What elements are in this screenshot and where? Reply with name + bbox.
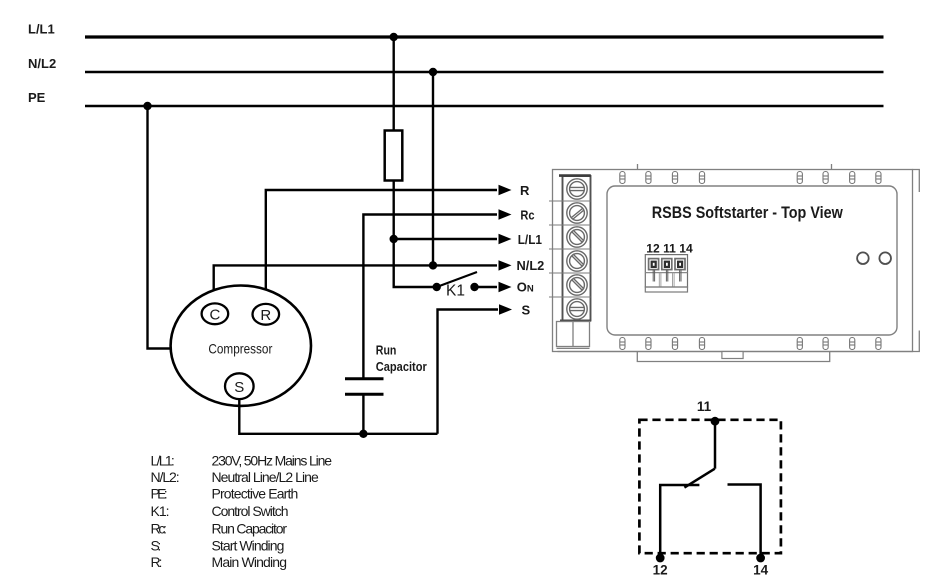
node N/L2 tap junction [429, 68, 437, 76]
wire mains line L/L1 [85, 35, 884, 38]
node terminal 14 [756, 554, 765, 563]
compressor terminal C [202, 303, 229, 324]
wire protective earth line PE [85, 105, 884, 107]
wire L/L1 feed down to fuse [393, 37, 395, 131]
svg-text:11: 11 [697, 399, 712, 414]
svg-text:L/L1:: L/L1: [151, 453, 175, 469]
wire Rc row (to run capacitor) [363, 215, 497, 379]
arrow N/L2 [499, 260, 512, 270]
svg-text:Run: Run [376, 343, 397, 358]
wire R row (main winding to terminal R) [266, 190, 497, 304]
svg-text:14: 14 [753, 563, 769, 578]
svg-text:Neutral Line/L2 Line: Neutral Line/L2 Line [212, 469, 320, 485]
wire On row [475, 286, 498, 288]
svg-text:S:: S: [151, 538, 162, 554]
softstarter bottom vent tabs [620, 338, 881, 350]
softstarter terminal dividers [549, 201, 591, 297]
softstarter din rail clip bottom [637, 352, 829, 362]
wire relay common from 11 [714, 421, 717, 469]
fuse F1 [385, 131, 403, 181]
svg-text:R:: R: [151, 554, 163, 570]
wire S row (from start winding) [438, 310, 499, 434]
wire start winding bottom run [239, 399, 437, 434]
relay moving blade [684, 469, 714, 488]
softstarter terminal strip lower block [557, 322, 913, 352]
svg-text:12 11 14: 12 11 14 [646, 244, 693, 256]
wire capacitor bottom lead [362, 394, 364, 434]
capacitor Rc bottom plate [345, 393, 384, 396]
softstarter screws [567, 179, 587, 319]
svg-text:Main Winding: Main Winding [212, 554, 288, 570]
svg-text:S: S [234, 379, 244, 396]
wire mains line N/L2 [85, 71, 884, 73]
arrow L/L1 [499, 234, 512, 244]
svg-text:R: R [260, 307, 271, 324]
svg-text:N/L2: N/L2 [517, 258, 545, 273]
svg-text:Control Switch: Control Switch [212, 503, 289, 519]
softstarter din rail top clips [638, 164, 832, 170]
node terminal 12 [656, 554, 665, 563]
node PE tap junction [143, 102, 151, 110]
svg-text:Start Winding: Start Winding [212, 538, 285, 554]
wire relay NO contact to 14 [728, 485, 761, 559]
svg-text:PE:: PE: [151, 486, 168, 502]
svg-text:L/L1: L/L1 [518, 232, 542, 247]
svg-text:Rc: Rc [520, 207, 534, 222]
compressor motor shell [171, 286, 311, 406]
legend [151, 453, 333, 571]
node junction on L/L1 arrow row [390, 235, 398, 243]
compressor terminal S [225, 373, 254, 399]
svg-text:S: S [522, 302, 531, 317]
svg-text:N/L2: N/L2 [28, 56, 56, 71]
softstarter din clip handle [722, 352, 743, 359]
svg-text:Run Capacitor: Run Capacitor [212, 521, 288, 537]
wire N/L2 feed down [432, 72, 434, 265]
softstarter indicator hole right [879, 252, 891, 264]
svg-text:Capacitor: Capacitor [376, 359, 427, 374]
svg-text:L/L1: L/L1 [28, 22, 55, 37]
softstarter terminal strip frame [563, 176, 591, 321]
softstarter inner face plate [607, 186, 897, 335]
arrow Rc [499, 209, 512, 219]
svg-text:RSBS Softstarter - Top View: RSBS Softstarter - Top View [652, 203, 844, 222]
svg-text:230V, 50Hz Mains Line: 230V, 50Hz Mains Line [212, 453, 333, 469]
softstarter control connector block [645, 255, 687, 292]
svg-text:R: R [520, 183, 530, 198]
softstarter right rail stubs [913, 170, 920, 352]
softstarter indicator hole left [857, 252, 869, 264]
node terminal 11 [711, 417, 720, 426]
relay contact diagram dashed box [639, 420, 781, 553]
wire PE feed to compressor shell [148, 106, 172, 349]
RSBS softstarter U1 top view [553, 164, 920, 352]
wire N/L2 arrow row (from terminal C) [214, 265, 497, 303]
svg-text:Rc:: Rc: [151, 521, 167, 537]
wire relay NC contact to 12 [660, 485, 699, 558]
node L/L1 tap junction [390, 33, 398, 41]
softstarter outer housing [553, 170, 913, 352]
switch K1 right contact node [470, 283, 478, 291]
node capacitor bottom junction [359, 430, 367, 438]
wire L/L1 arrow row [394, 238, 497, 240]
svg-text:K1: K1 [446, 283, 465, 300]
svg-text:12: 12 [653, 563, 668, 578]
arrow R [499, 185, 512, 195]
arrow S [499, 304, 512, 314]
svg-text:Compressor: Compressor [208, 341, 272, 357]
switch K1 left contact node [433, 283, 441, 291]
svg-text:C: C [209, 306, 220, 323]
switch K1 blade [437, 272, 477, 287]
capacitor Rc top plate [345, 377, 384, 380]
svg-text:PE: PE [28, 90, 46, 105]
arrow On [499, 282, 512, 292]
softstarter top vent tabs [620, 172, 881, 184]
compressor terminal R [252, 304, 279, 325]
svg-text:Protective Earth: Protective Earth [212, 486, 299, 502]
node junction on N/L2 arrow row [429, 261, 437, 269]
svg-text:N/L2:: N/L2: [151, 469, 180, 485]
wire fuse output down to K1 row [394, 181, 437, 288]
svg-text:K1:: K1: [151, 503, 170, 519]
